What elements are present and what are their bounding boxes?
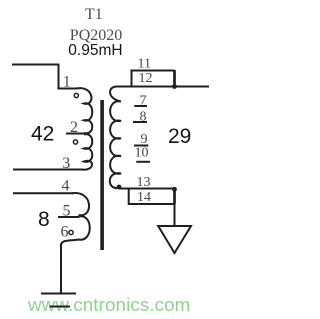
pin 8 stub (133, 121, 147, 123)
polarity dot pin 6 (69, 230, 73, 234)
svg-text:7: 7 (140, 94, 147, 109)
wire pin 4 lead (13, 192, 73, 194)
wire pin 1 lead (12, 65, 77, 89)
wire to ground (174, 204, 176, 226)
transformer core (100, 100, 104, 250)
winding T1 auxiliary section 5-6 (61, 216, 90, 245)
svg-text:www.cntronics.com: www.cntronics.com (27, 294, 190, 315)
wire pin 3 lead (13, 169, 83, 171)
svg-text:14: 14 (137, 190, 151, 205)
wire link box pins 11-12 (132, 71, 175, 87)
svg-text:2: 2 (70, 119, 78, 136)
winding T1 primary section 1-2 (76, 88, 92, 133)
junction dot winding end pin 13 (117, 185, 122, 190)
pin 9 stub (134, 145, 148, 147)
ground earth bar 1 (41, 293, 76, 295)
svg-text:3: 3 (62, 155, 70, 172)
svg-text:0.95mH: 0.95mH (68, 42, 122, 59)
winding T1 secondary 11-13 (110, 86, 121, 188)
svg-text:12: 12 (139, 71, 153, 86)
svg-text:8: 8 (140, 110, 147, 125)
winding T1 auxiliary section 4-5 (72, 193, 89, 215)
svg-text:1: 1 (63, 74, 71, 91)
wire tap pin 5 (58, 216, 79, 218)
svg-text:10: 10 (135, 146, 149, 161)
pin 10 stub (136, 161, 150, 163)
polarity dot pin 1 (74, 93, 78, 97)
svg-text:8: 8 (38, 208, 50, 231)
winding T1 primary section 2-3 (82, 134, 92, 170)
junction dot node 11-12 (172, 84, 177, 89)
wire tap pin 2 (66, 133, 87, 135)
svg-text:6: 6 (61, 224, 69, 241)
svg-text:42: 42 (31, 123, 54, 146)
svg-text:T1: T1 (85, 6, 103, 23)
ground symbol triangle (158, 226, 191, 253)
svg-text:13: 13 (137, 175, 151, 190)
wire pin 13 lead (119, 188, 175, 190)
svg-text:5: 5 (63, 203, 71, 220)
junction dot node 13-14 (172, 187, 177, 192)
svg-text:29: 29 (168, 125, 191, 148)
wire secondary top net (pins 11-12) (117, 86, 209, 88)
pin 7 stub (134, 105, 147, 107)
svg-text:11: 11 (138, 57, 151, 72)
polarity dot pin 2 (73, 140, 77, 144)
wire link box pins 13-14 (129, 190, 175, 205)
wire pin 6 down lead (60, 244, 62, 293)
svg-text:4: 4 (62, 178, 70, 195)
ground earth bar 2 (50, 306, 71, 308)
